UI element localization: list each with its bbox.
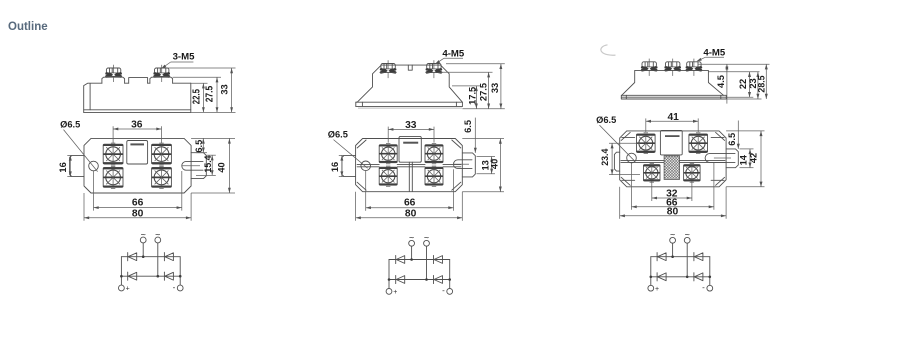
- svg-text:33: 33: [220, 84, 230, 94]
- svg-text:80: 80: [132, 209, 144, 220]
- svg-text:Ø6.5: Ø6.5: [328, 129, 348, 139]
- svg-text:+: +: [655, 286, 659, 293]
- svg-text:27.5: 27.5: [205, 85, 216, 102]
- svg-text:4-M5: 4-M5: [703, 47, 726, 58]
- svg-text:~: ~: [685, 230, 690, 240]
- svg-text:15.4: 15.4: [203, 155, 213, 172]
- svg-text:14: 14: [739, 154, 749, 165]
- svg-text:6.5: 6.5: [727, 133, 737, 146]
- svg-text:42: 42: [749, 153, 759, 163]
- svg-text:~: ~: [141, 229, 146, 239]
- svg-text:66: 66: [404, 198, 416, 209]
- svg-text:80: 80: [667, 207, 679, 218]
- svg-text:16: 16: [58, 162, 68, 172]
- svg-text:23.4: 23.4: [600, 149, 610, 166]
- svg-text:66: 66: [132, 197, 144, 208]
- svg-text:Ø6.5: Ø6.5: [60, 120, 80, 130]
- svg-text:+: +: [393, 289, 397, 296]
- svg-text:~: ~: [155, 229, 160, 239]
- svg-text:36: 36: [131, 120, 143, 131]
- svg-text:4.5: 4.5: [716, 75, 726, 88]
- svg-text:33: 33: [405, 120, 417, 131]
- svg-text:+: +: [126, 286, 130, 293]
- svg-text:~: ~: [424, 233, 429, 243]
- svg-text:33: 33: [490, 83, 500, 93]
- svg-text:16: 16: [330, 162, 340, 172]
- svg-text:28.5: 28.5: [757, 75, 767, 92]
- svg-text:40: 40: [217, 162, 227, 172]
- svg-text:40: 40: [489, 159, 499, 169]
- svg-text:6.5: 6.5: [463, 120, 473, 133]
- svg-text:22.5: 22.5: [191, 89, 202, 105]
- svg-text:3-M5: 3-M5: [173, 51, 196, 62]
- svg-text:17.5: 17.5: [468, 87, 478, 105]
- svg-text:Outline: Outline: [8, 21, 48, 33]
- svg-text:22: 22: [738, 79, 748, 89]
- svg-text:6.5: 6.5: [194, 140, 204, 153]
- svg-text:~: ~: [670, 230, 675, 240]
- svg-text:41: 41: [667, 112, 679, 123]
- svg-text:-: -: [442, 286, 445, 295]
- svg-text:~: ~: [409, 233, 414, 243]
- svg-text:27.5: 27.5: [479, 83, 489, 101]
- svg-text:-: -: [173, 283, 176, 292]
- svg-text:4-M5: 4-M5: [442, 48, 465, 59]
- svg-text:-: -: [702, 283, 705, 292]
- svg-text:80: 80: [405, 209, 417, 220]
- svg-text:Ø6.5: Ø6.5: [596, 115, 616, 125]
